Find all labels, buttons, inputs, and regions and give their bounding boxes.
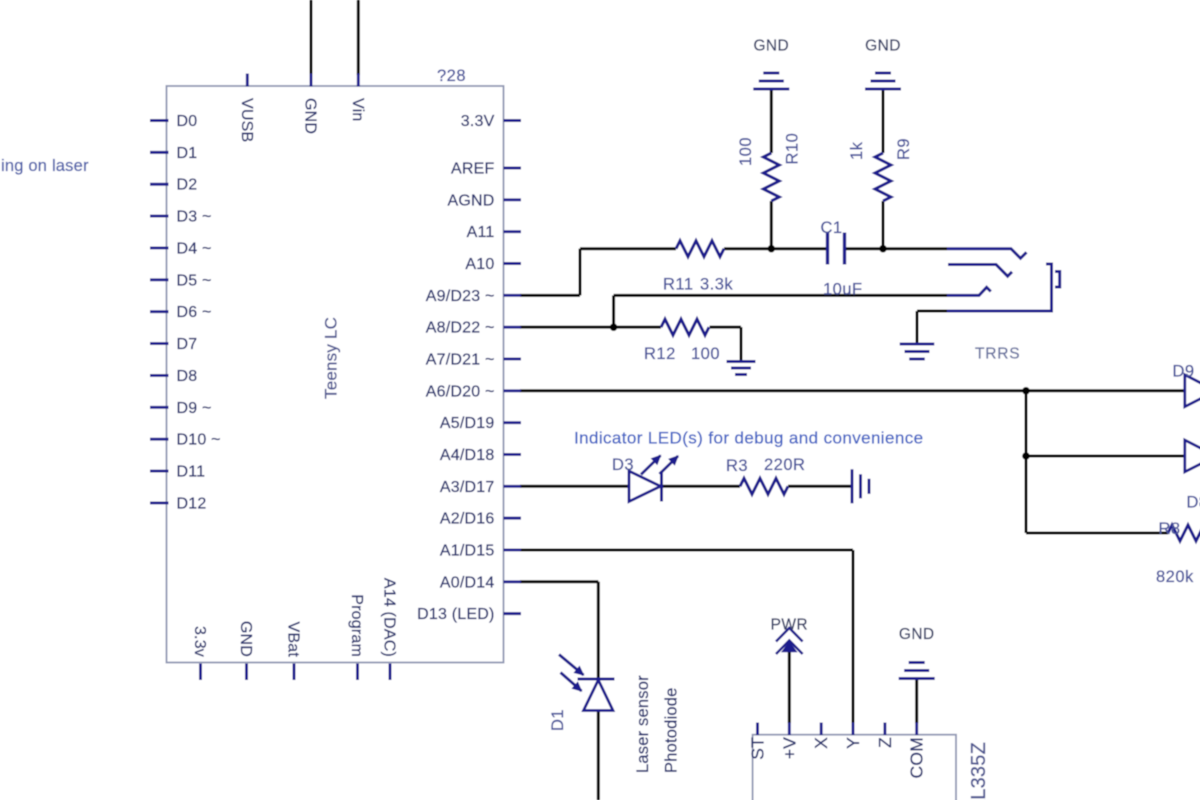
svg-text:Y: Y bbox=[843, 737, 863, 749]
svg-text:A5/D19: A5/D19 bbox=[440, 415, 495, 432]
svg-text:Photodiode: Photodiode bbox=[663, 688, 681, 774]
svg-text:A8/D22 ~: A8/D22 ~ bbox=[426, 320, 495, 337]
svg-text:GND: GND bbox=[899, 626, 935, 643]
svg-text:AREF: AREF bbox=[451, 161, 494, 178]
svg-text:R8: R8 bbox=[1159, 520, 1181, 538]
svg-text:TRRS: TRRS bbox=[975, 346, 1020, 363]
svg-text:GND: GND bbox=[237, 621, 254, 657]
svg-text:GND: GND bbox=[302, 98, 319, 134]
svg-text:100: 100 bbox=[691, 345, 720, 363]
svg-text:A7/D21 ~: A7/D21 ~ bbox=[426, 351, 495, 368]
svg-text:D13 (LED): D13 (LED) bbox=[417, 606, 494, 623]
svg-text:GND: GND bbox=[865, 38, 901, 55]
svg-text:Z: Z bbox=[875, 737, 895, 748]
svg-text:R12: R12 bbox=[644, 345, 676, 363]
svg-text:D8: D8 bbox=[1187, 494, 1200, 512]
svg-text:A6/D20 ~: A6/D20 ~ bbox=[426, 383, 495, 400]
svg-text:D3: D3 bbox=[612, 456, 634, 474]
svg-text:A1/D15: A1/D15 bbox=[440, 542, 495, 559]
svg-text:D4 ~: D4 ~ bbox=[177, 240, 212, 257]
svg-text:VUSB: VUSB bbox=[238, 98, 255, 142]
svg-text:C1: C1 bbox=[821, 219, 843, 237]
svg-text:D12: D12 bbox=[177, 495, 207, 512]
svg-text:820k: 820k bbox=[1156, 568, 1194, 586]
svg-text:D0: D0 bbox=[177, 113, 198, 130]
svg-text:R11: R11 bbox=[663, 276, 694, 294]
svg-text:Indicator LED(s) for debug and: Indicator LED(s) for debug and convenien… bbox=[574, 429, 923, 448]
svg-text:100: 100 bbox=[737, 137, 755, 166]
svg-text:1k: 1k bbox=[848, 141, 866, 160]
svg-text:10uF: 10uF bbox=[823, 281, 863, 299]
svg-text:A11: A11 bbox=[467, 224, 495, 241]
svg-text:D1: D1 bbox=[549, 709, 567, 731]
svg-text:A2/D16: A2/D16 bbox=[440, 511, 495, 528]
svg-text:A9/D23 ~: A9/D23 ~ bbox=[426, 288, 495, 305]
svg-text:Vin: Vin bbox=[349, 98, 366, 121]
svg-text:220R: 220R bbox=[764, 456, 805, 474]
svg-text:ing on laser: ing on laser bbox=[1, 157, 89, 175]
svg-text:D3 ~: D3 ~ bbox=[177, 209, 212, 226]
svg-text:COM: COM bbox=[907, 737, 927, 778]
svg-text:D7: D7 bbox=[177, 336, 198, 353]
svg-text:D9 ~: D9 ~ bbox=[177, 400, 212, 417]
svg-text:3.3k: 3.3k bbox=[700, 276, 733, 294]
svg-text:ST: ST bbox=[748, 737, 768, 760]
svg-text:A4/D18: A4/D18 bbox=[440, 447, 495, 464]
svg-text:D10 ~: D10 ~ bbox=[177, 432, 221, 449]
svg-text:R10: R10 bbox=[784, 133, 802, 165]
svg-text:D1: D1 bbox=[177, 145, 198, 162]
svg-text:D2: D2 bbox=[177, 177, 198, 194]
svg-text:Program: Program bbox=[348, 594, 365, 657]
svg-text:+V: +V bbox=[779, 737, 799, 759]
svg-text:D11: D11 bbox=[177, 464, 206, 481]
svg-text:GND: GND bbox=[753, 38, 789, 55]
svg-text:D6 ~: D6 ~ bbox=[177, 304, 212, 321]
svg-text:X: X bbox=[811, 737, 831, 749]
svg-text:3.3V: 3.3V bbox=[461, 113, 495, 130]
svg-text:3.3v: 3.3v bbox=[191, 626, 208, 657]
svg-text:?28: ?28 bbox=[437, 67, 466, 85]
svg-text:A3/D17: A3/D17 bbox=[440, 479, 495, 496]
svg-text:R9: R9 bbox=[895, 138, 913, 160]
svg-text:VBat: VBat bbox=[285, 622, 302, 658]
svg-text:ADXL335Z: ADXL335Z bbox=[968, 742, 990, 800]
svg-text:A10: A10 bbox=[465, 256, 494, 273]
svg-text:A0/D14: A0/D14 bbox=[440, 574, 495, 591]
svg-text:R3: R3 bbox=[726, 457, 748, 475]
svg-text:Laser sensor: Laser sensor bbox=[634, 675, 652, 773]
svg-text:AGND: AGND bbox=[447, 192, 494, 209]
svg-text:Teensy LC: Teensy LC bbox=[322, 317, 341, 399]
svg-text:D8: D8 bbox=[177, 368, 198, 385]
svg-text:D5 ~: D5 ~ bbox=[177, 272, 212, 289]
svg-text:A14 (DAC): A14 (DAC) bbox=[381, 578, 398, 657]
svg-text:D9: D9 bbox=[1173, 363, 1195, 381]
svg-text:PWR: PWR bbox=[771, 617, 808, 634]
